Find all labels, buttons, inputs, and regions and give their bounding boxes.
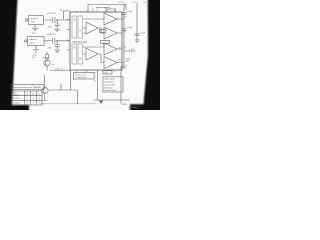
- svg-text:0: 0: [27, 103, 28, 105]
- svg-text:2: 2: [67, 39, 68, 41]
- svg-text:input: input: [30, 42, 35, 45]
- svg-text:15: 15: [104, 8, 106, 10]
- svg-text:10n: 10n: [118, 48, 121, 50]
- svg-text:(a): (a): [144, 2, 147, 4]
- svg-text:4.7µF: 4.7µF: [140, 32, 146, 34]
- svg-text:0.1µF: 0.1µF: [127, 11, 133, 13]
- svg-text:12: 12: [94, 80, 96, 82]
- svg-text:(4): (4): [124, 31, 127, 33]
- svg-text:camera 1: camera 1: [29, 17, 39, 20]
- svg-text:TDA8440J: TDA8440J: [72, 41, 88, 44]
- svg-text:1: 1: [67, 17, 68, 19]
- svg-text:BC548: BC548: [43, 58, 50, 60]
- svg-text:1: 1: [33, 103, 34, 105]
- svg-text:10: 10: [94, 72, 96, 74]
- svg-text:+12 V: +12 V: [118, 2, 124, 4]
- svg-text:+12 V: +12 V: [132, 2, 138, 4]
- svg-text:75Ω: 75Ω: [32, 33, 36, 35]
- svg-text:75Ω 1 Vpp: 75Ω 1 Vpp: [104, 87, 113, 89]
- svg-text:(5): (5): [124, 47, 127, 49]
- svg-text:switch control: switch control: [75, 74, 86, 77]
- svg-text:8: 8: [86, 72, 87, 74]
- svg-text:10n: 10n: [118, 60, 121, 62]
- svg-text:output signal: output signal: [104, 78, 115, 81]
- svg-text:9874б5-2: 9874б5-2: [128, 106, 140, 110]
- svg-text:11: 11: [94, 76, 96, 78]
- svg-text:10µF 25V: 10µF 25V: [47, 34, 56, 36]
- svg-text:220n: 220n: [48, 47, 52, 49]
- svg-text:mode sel: mode sel: [55, 69, 63, 71]
- svg-text:from µP port: from µP port: [77, 76, 87, 79]
- svg-text:16: 16: [96, 8, 98, 10]
- svg-text:selected: selected: [12, 93, 18, 96]
- svg-text:0: 0: [33, 98, 34, 100]
- svg-text:220n: 220n: [48, 27, 52, 29]
- svg-text:(2): (2): [124, 17, 127, 19]
- svg-text:10k: 10k: [51, 64, 54, 66]
- svg-text:1: 1: [39, 103, 40, 105]
- svg-text:87465: 87465: [122, 104, 127, 106]
- svg-text:1W: 1W: [32, 57, 35, 59]
- svg-text:to monitor or: to monitor or: [104, 81, 114, 84]
- svg-text:(1): (1): [60, 9, 63, 11]
- svg-text:input: input: [31, 21, 36, 24]
- svg-text:10µF 25V: 10µF 25V: [47, 13, 56, 15]
- svg-text:9: 9: [76, 72, 77, 74]
- svg-text:1: 1: [27, 98, 28, 100]
- svg-text:camera 2: camera 2: [29, 38, 39, 41]
- svg-text:0.1µF: 0.1µF: [127, 27, 133, 29]
- svg-text:camera 1: camera 1: [12, 97, 19, 100]
- svg-text:1: 1: [39, 98, 40, 100]
- svg-text:switched video: switched video: [104, 89, 116, 92]
- svg-text:video recorder: video recorder: [104, 85, 116, 87]
- svg-text:switching functions of the TDA: switching functions of the TDA8440: [12, 86, 40, 89]
- svg-text:camera 2: camera 2: [12, 101, 19, 104]
